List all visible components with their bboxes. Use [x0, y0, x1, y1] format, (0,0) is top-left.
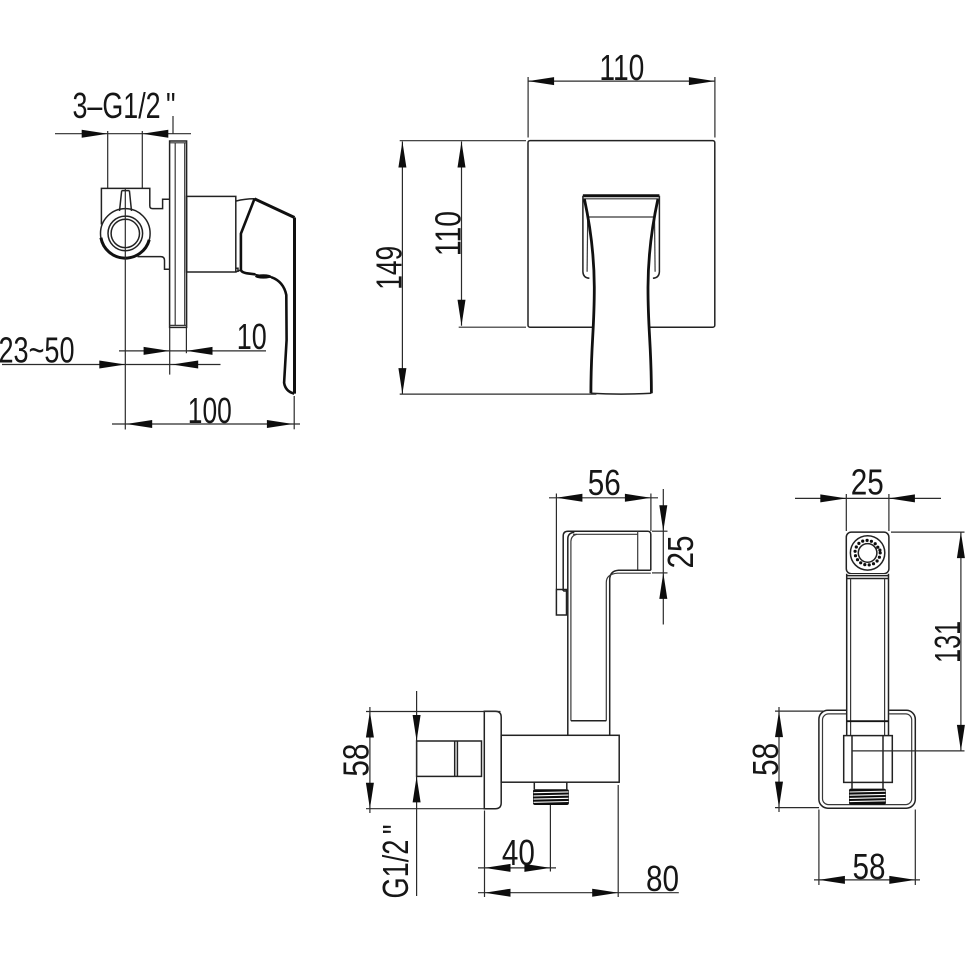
- lever right contour (thick): [648, 199, 658, 393]
- outlet spigot neck right: [566, 782, 568, 789]
- lever handle right edge (thick): [293, 218, 296, 394]
- arrow 100 right: [267, 420, 293, 428]
- extension block right down: [617, 785, 619, 897]
- dimension 149 line: [401, 142, 403, 395]
- arrow 149 top: [398, 142, 406, 168]
- lever left contour (thick): [584, 199, 594, 393]
- shower head front: [846, 532, 889, 574]
- text 58 bottom: [853, 846, 886, 887]
- cylinder retaining ring step: [236, 268, 238, 272]
- valve body bottom edge: [138, 257, 170, 270]
- escutcheon cylinder: [187, 196, 236, 272]
- sprayer head left bevel line: [568, 532, 575, 735]
- arrow 80 right: [592, 889, 618, 897]
- svg-text:110: 110: [599, 47, 644, 88]
- sprayer arm bottom edge: [610, 570, 651, 735]
- text 40: [502, 832, 535, 873]
- wall plate inner bottom edge: [170, 324, 187, 326]
- holder hook: [556, 590, 566, 616]
- dimension 23~50 line: [2, 364, 221, 366]
- text 56: [588, 462, 621, 503]
- arrow 56 left: [556, 494, 582, 502]
- extension head right: [650, 494, 652, 532]
- extension 58B left: [818, 810, 820, 886]
- handle neck top arc: [236, 199, 255, 201]
- extension 25C bottom: [652, 572, 668, 574]
- extension hook left: [555, 494, 557, 590]
- svg-text:23~50: 23~50: [0, 330, 75, 371]
- wall plate inner top edge: [170, 142, 187, 144]
- set screw blob under handle: [255, 274, 271, 278]
- arrow 149 bottom: [398, 368, 406, 394]
- label 3-G1/2": [73, 85, 176, 126]
- valve boss circle outer: [101, 209, 151, 259]
- inlet stub joint line 2: [456, 741, 458, 776]
- valve port circle inner: [111, 219, 139, 247]
- handle neck bottom link: [236, 270, 241, 272]
- wall plate inner line left: [174, 143, 176, 326]
- svg-text:58: 58: [336, 744, 377, 777]
- arrow 58B right: [889, 876, 915, 884]
- svg-text:3–G1/2 ": 3–G1/2 ": [73, 85, 176, 126]
- arrow 40 right: [524, 864, 550, 872]
- arrow 110L top: [458, 142, 466, 168]
- extension line right port: [141, 131, 143, 188]
- extension line left port: [107, 131, 109, 188]
- dimension 100 line: [112, 423, 300, 425]
- G1/2 arrow up: [413, 776, 421, 802]
- holder collar: [844, 736, 893, 783]
- arrow 58C top: [366, 712, 374, 738]
- valve port circle middle: [108, 216, 143, 251]
- dimension line 3-G1/2: [55, 133, 191, 135]
- dimension 25D line: [795, 497, 941, 499]
- text 110 top: [599, 47, 644, 88]
- arrow 56 right: [625, 494, 651, 502]
- wall plate front inner line: [823, 714, 912, 805]
- arrow 110 right: [689, 77, 715, 85]
- collar inner right: [882, 736, 884, 789]
- valve top port stem: [120, 191, 132, 211]
- extension plate right edge down: [185, 327, 187, 353]
- svg-text:131: 131: [927, 621, 966, 663]
- handle left edge: [846, 574, 848, 736]
- spray face inner circle: [858, 544, 877, 563]
- dimension 80 line: [478, 892, 679, 894]
- svg-text:58: 58: [745, 743, 786, 776]
- wall plate side view: [484, 711, 501, 808]
- head lip step: [563, 590, 568, 592]
- arrow 40 left: [485, 864, 511, 872]
- sprayer head right end bevel: [637, 531, 639, 571]
- lever bottom edge: [591, 392, 652, 395]
- svg-text:10: 10: [237, 316, 267, 357]
- arrow 25C up: [659, 573, 667, 599]
- lever handle left/underside contour (thick): [241, 199, 294, 394]
- extension 58C bottom: [366, 808, 485, 810]
- arrow 131 top: [957, 532, 965, 558]
- wall plate inner line right: [184, 143, 186, 326]
- dimension 131 line: [960, 532, 962, 751]
- extension handle tip down: [293, 396, 295, 429]
- extension lever bottom: [400, 393, 597, 395]
- svg-text:149: 149: [369, 246, 410, 290]
- extension square bottom left: [459, 326, 526, 328]
- extension 58C top: [366, 711, 501, 713]
- inlet stub: [417, 741, 482, 776]
- square escutcheon plate: [528, 141, 715, 328]
- G1/2 arrow down: [413, 715, 421, 741]
- arrow 100 left: [126, 420, 152, 428]
- centerline through valve: [124, 188, 126, 429]
- text 58 rotated (view C): [336, 744, 377, 777]
- extension square top-right: [714, 77, 716, 138]
- arrow 23~50 left (pointing right): [99, 361, 125, 369]
- extension 131 top: [891, 531, 965, 533]
- svg-text:58: 58: [853, 846, 886, 887]
- dimension 56 line: [549, 497, 658, 499]
- text 131 rotated: [927, 621, 966, 663]
- thick lower arc of boss: [101, 238, 149, 258]
- sprayer head outer contour: [563, 531, 651, 591]
- wall plate side view: [170, 141, 187, 327]
- arrow 10 left (pointing right): [144, 347, 170, 355]
- head-handle joint lines: [847, 575, 888, 577]
- flange inner right line: [654, 217, 657, 272]
- handle inner bevel right: [884, 579, 886, 736]
- svg-text:40: 40: [502, 832, 535, 873]
- flange inner horizontal line: [588, 216, 655, 218]
- handle bottom cap line: [847, 720, 889, 722]
- handle right edge: [888, 574, 890, 736]
- holder block: [501, 735, 619, 782]
- sprayer arm bottom edge inner: [606, 573, 651, 721]
- arrow 25C down: [659, 505, 667, 531]
- extension 58D top: [775, 710, 824, 712]
- outlet spigot neck left: [533, 782, 535, 789]
- dimension 110 left line: [461, 142, 463, 326]
- dimension 10 line: [119, 350, 266, 352]
- arrow 110 left: [528, 77, 554, 85]
- arrow 58C bottom: [366, 783, 374, 809]
- wall plate front outer: [819, 710, 915, 808]
- arrow 23~50 right (pointing left): [172, 361, 198, 369]
- arrow 58B left: [819, 876, 845, 884]
- lever handle top slope (thick): [255, 199, 295, 218]
- extension 25C top: [652, 530, 668, 532]
- arrow right (pointing left): [142, 130, 168, 138]
- sprayer head left bevel line 2: [571, 534, 577, 720]
- handle inner bevel left: [850, 579, 852, 736]
- valve body outline: [101, 188, 169, 224]
- handle flange outer: [583, 194, 660, 197]
- svg-text:80: 80: [646, 858, 679, 899]
- flange inner top line: [584, 198, 659, 200]
- outlet spigot thread block: [533, 789, 569, 805]
- spray face outer circle: [850, 536, 884, 570]
- dimension 58 line (view C): [369, 707, 371, 813]
- text G1/2" rotated: [375, 825, 416, 899]
- arrow left (pointing right): [82, 130, 108, 138]
- dimension 110 top line: [528, 80, 715, 82]
- extension head left: [845, 494, 847, 531]
- text 25 rotated (view C): [660, 536, 701, 569]
- arrow 58D top: [775, 711, 783, 737]
- svg-text:25: 25: [660, 536, 701, 569]
- flange left edge: [583, 196, 590, 279]
- arrow 10 right (pointing left): [187, 347, 213, 355]
- svg-text:G1/2 ": G1/2 ": [375, 825, 416, 899]
- sprayer handle bottom bevel: [571, 720, 606, 722]
- dimension 58 left line (view D): [778, 707, 780, 812]
- G1/2 leader line: [416, 691, 418, 896]
- sprayer head inner top line: [573, 533, 638, 535]
- extension head right: [888, 494, 890, 531]
- text 23~50: [0, 330, 75, 371]
- coupling thread block: [849, 789, 886, 805]
- svg-text:100: 100: [188, 390, 232, 431]
- extension plate left edge down: [169, 327, 171, 374]
- arrow 131 bottom: [957, 725, 965, 751]
- flange right edge: [653, 196, 660, 279]
- spray nozzle ring: [854, 539, 882, 567]
- extension square top-left: [527, 77, 529, 138]
- arrow 25D left (pointing right): [820, 494, 846, 502]
- dimension 58 bottom line (view D): [814, 879, 920, 881]
- dimension 25 line (view C right): [662, 489, 664, 625]
- arrow 110L bottom: [458, 300, 466, 326]
- extension 131 bottom: [852, 750, 965, 752]
- extension plate left bottom: [484, 811, 486, 898]
- text 80: [646, 858, 679, 899]
- arrow 25D right (pointing left): [889, 494, 915, 502]
- dimension 40 line: [478, 867, 556, 869]
- flange inner left line: [586, 217, 589, 272]
- spigot centerline: [549, 805, 551, 872]
- handle occlusion fill: [846, 574, 889, 736]
- extension 58B right: [914, 810, 916, 886]
- svg-text:56: 56: [588, 462, 621, 503]
- text 110 rotated: [427, 211, 468, 256]
- extension top edge left: [400, 140, 526, 142]
- text 149 rotated: [369, 246, 410, 290]
- svg-text:110: 110: [427, 211, 468, 256]
- lever body occlusion fill: [584, 199, 658, 393]
- text 10: [237, 316, 267, 357]
- text 25 (view D): [851, 462, 884, 503]
- text 100: [188, 390, 232, 431]
- extension 58D bottom: [775, 807, 819, 809]
- collar inner left: [851, 736, 853, 789]
- arrow 80 left: [485, 889, 511, 897]
- leader line under label: [172, 116, 174, 134]
- text 58 rotated (view D): [745, 743, 786, 776]
- inlet stub joint line 1: [454, 741, 456, 776]
- svg-text:25: 25: [851, 462, 884, 503]
- arrow 58D bottom: [775, 782, 783, 808]
